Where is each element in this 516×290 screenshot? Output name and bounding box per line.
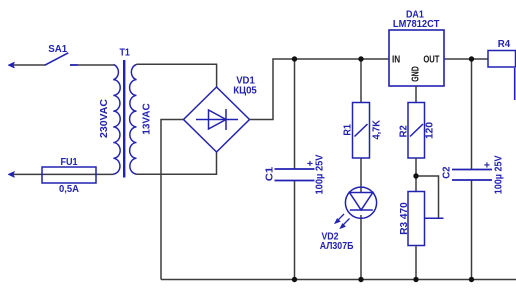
wire C1 riser [294,59,296,280]
wire bridge positive to top rail [250,59,390,120]
svg-text:R3 470: R3 470 [398,202,410,235]
LED VD2 [345,187,376,218]
svg-text:100µ 25V: 100µ 25V [314,155,326,195]
svg-text:100µ 25V: 100µ 25V [493,156,505,195]
wire GND pin [415,86,417,103]
wire DA1 OUT [444,58,488,60]
svg-text:FU1: FU1 [60,156,77,168]
arrow AC input top [8,62,14,68]
capacitor C2 [452,170,492,181]
resistor R3 [408,192,425,246]
wire C2 riser [471,59,473,280]
svg-text:R2: R2 [397,125,409,137]
wire R4 output stub [514,68,516,100]
wire bottom rail [161,279,516,281]
regulator DA1 [389,30,444,86]
svg-text:R1: R1 [342,124,354,136]
svg-text:T1: T1 [119,46,130,58]
bridge rectifier VD1 [184,87,250,152]
wire bottom AC input [13,173,114,175]
resistor R3 wiper bar [425,217,444,219]
transformer T1 core [123,60,125,178]
wire secondary bottom to bridge [137,152,217,174]
fuse FU1 [42,167,96,183]
wire bridge negative to bottom rail [161,120,184,280]
svg-text:230VAC: 230VAC [98,99,110,138]
svg-text:C1: C1 [264,167,276,182]
transformer T1 primary winding [113,65,120,175]
switch SA1 [45,53,69,65]
svg-text:+: + [484,159,490,171]
svg-text:C2: C2 [440,166,452,179]
wire R3 to rail [415,246,417,280]
capacitor C1 [275,169,315,181]
svg-text:0,5A: 0,5A [59,183,79,195]
svg-text:КЦ05: КЦ05 [233,84,257,96]
svg-text:120: 120 [424,122,436,139]
resistor R4 [488,51,516,68]
svg-text:R4: R4 [498,38,511,50]
resistor R1 [353,103,370,159]
wire R1 branch [360,59,362,280]
svg-text:GND: GND [409,66,421,82]
svg-text:4,7K: 4,7K [370,120,382,140]
arrow AC input bottom [8,172,14,178]
resistor R2 [408,103,425,159]
svg-text:+: + [307,158,313,170]
wire secondary top to bridge [137,64,217,87]
svg-text:IN: IN [392,54,400,66]
svg-text:LM7812CT: LM7812CT [393,18,440,30]
wire top AC input [13,64,114,66]
transformer T1 secondary winding [130,65,137,175]
svg-text:OUT: OUT [423,54,440,66]
svg-text:АЛ307Б: АЛ307Б [320,240,354,252]
wire R2 to R3 [415,158,417,192]
svg-text:SA1: SA1 [48,43,67,55]
wire R3 wiper link [416,176,439,218]
svg-text:13VAC: 13VAC [141,103,153,135]
LED VD2 arrows [334,214,349,229]
